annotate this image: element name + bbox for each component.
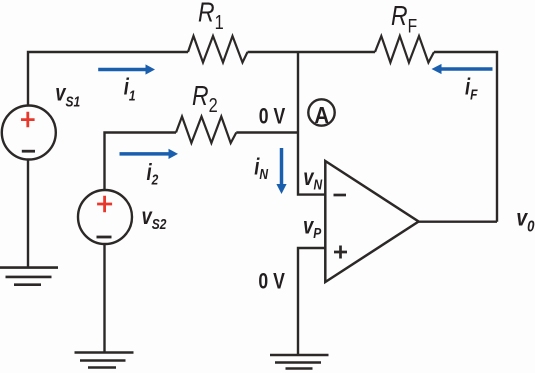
label R1 — [198, 0, 224, 33]
wire: node vertical line from top wire down to inverting input — [298, 52, 325, 195]
voltage source vS2 — [78, 190, 132, 244]
wire: top-left from vS1 up and across to R1 — [28, 52, 188, 106]
svg-text:vS2: vS2 — [142, 204, 167, 232]
current arrow iN — [280, 148, 284, 185]
resistor R1 — [188, 36, 248, 63]
svg-text:i2: i2 — [147, 160, 159, 188]
label i2 — [147, 160, 159, 188]
svg-text:i1: i1 — [124, 74, 136, 104]
wire: vS1 bottom to ground — [27, 160, 29, 269]
label vS2 — [142, 204, 167, 232]
ground (vS1) — [0, 268, 58, 285]
label iF — [465, 75, 478, 103]
svg-text:0 V: 0 V — [259, 105, 286, 129]
op-amp plus input symbol — [334, 246, 347, 259]
label v0 — [516, 205, 534, 236]
svg-text:iN: iN — [254, 155, 269, 183]
svg-text:iF: iF — [465, 75, 478, 103]
label i1 — [124, 74, 136, 104]
svg-text:vN: vN — [303, 165, 323, 192]
vS2 plus sign — [97, 196, 112, 213]
wire: R1 right side to RF — [248, 51, 376, 53]
wire: op-amp output to feedback junction — [419, 220, 497, 222]
label vS1 — [55, 80, 80, 109]
current arrow iF — [441, 67, 493, 71]
resistor RF — [375, 36, 434, 63]
label 0V at R2 node — [259, 105, 286, 129]
vS1 plus sign — [21, 112, 35, 128]
svg-text:R2: R2 — [192, 81, 218, 116]
svg-text:v0: v0 — [516, 205, 534, 236]
node A circle — [308, 99, 334, 125]
wire: from vS2 up and right to R2 — [105, 133, 177, 191]
op-amp U1 — [325, 161, 418, 282]
node A letter — [314, 102, 329, 129]
wire: R2 output to node — [236, 131, 298, 133]
voltage source vS1 — [2, 106, 56, 160]
wire: non-inverting input and down to ground — [298, 248, 325, 355]
current arrow i2 — [120, 152, 170, 156]
svg-text:0 V: 0 V — [258, 270, 285, 294]
current arrow i1 — [98, 68, 146, 72]
svg-text:RF: RF — [391, 1, 417, 37]
label vP — [303, 214, 322, 242]
label R2 — [192, 81, 218, 116]
ground (vP) — [270, 355, 329, 369]
label iN — [254, 155, 269, 183]
ground (vS2) — [75, 353, 134, 368]
svg-text:A: A — [314, 102, 329, 129]
label 0V at vP ground — [258, 270, 285, 294]
wire: vS2 bottom to ground — [103, 244, 105, 353]
svg-text:R1: R1 — [198, 0, 224, 33]
label RF — [391, 1, 417, 37]
vS2 minus sign — [97, 236, 112, 239]
op-amp minus input symbol — [334, 194, 347, 197]
resistor R2 — [176, 117, 236, 144]
svg-text:vP: vP — [303, 214, 322, 242]
svg-text:vS1: vS1 — [55, 80, 80, 109]
vS1 minus sign — [22, 150, 35, 153]
label vN — [303, 165, 323, 192]
wire: RF right to top-right corner and down to output (feedback) — [434, 52, 497, 222]
